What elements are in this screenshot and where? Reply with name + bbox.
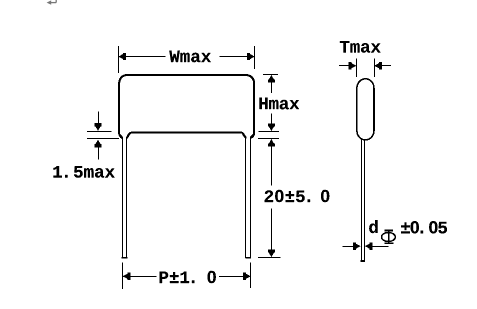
capacitor body side view (capsule) <box>357 79 374 140</box>
label 1.5max <box>53 166 114 178</box>
label Tmax <box>340 41 381 53</box>
label Wmax <box>169 51 211 63</box>
right lead front view <box>245 138 251 258</box>
paragraph return mark <box>47 0 57 5</box>
label Hmax <box>259 98 299 110</box>
1.5max upper arrow <box>94 112 101 132</box>
label P±1.0 <box>160 271 216 283</box>
lead diameter right arrow <box>365 243 388 250</box>
Hmax top extension line <box>263 74 278 76</box>
label 20±5.0 <box>265 190 330 202</box>
1.5max lower arrow <box>94 140 101 160</box>
Tmax extension line right <box>374 58 376 77</box>
20 dimension upper arrow <box>268 139 275 186</box>
Wmax extension line right <box>254 46 256 69</box>
P dimension line with arrows <box>123 273 251 280</box>
label d <box>369 220 378 233</box>
body bottom extension line left <box>87 131 111 133</box>
label ±0.05 <box>401 221 447 233</box>
lead side view <box>361 140 365 262</box>
Tmax dimension arrows <box>339 62 391 69</box>
lead kink extension line left <box>87 138 119 140</box>
capacitor body front view outline <box>119 75 254 138</box>
lead diameter left arrow <box>343 243 361 250</box>
Hmax lower arrow <box>268 114 275 132</box>
Wmax dimension line with arrows <box>118 53 255 60</box>
P extension line right <box>250 263 252 288</box>
Tmax extension line left <box>356 58 358 77</box>
lead kink extension line right <box>258 138 279 140</box>
P extension line left <box>122 263 124 289</box>
Hmax upper arrow <box>268 75 275 93</box>
20 dimension lower arrow <box>268 209 275 258</box>
left lead front view <box>122 138 128 258</box>
diameter symbol <box>382 230 396 244</box>
Wmax extension line left <box>118 46 120 73</box>
lead bottom extension line <box>258 257 281 259</box>
body bottom extension line right (Hmax bottom) <box>259 131 280 133</box>
